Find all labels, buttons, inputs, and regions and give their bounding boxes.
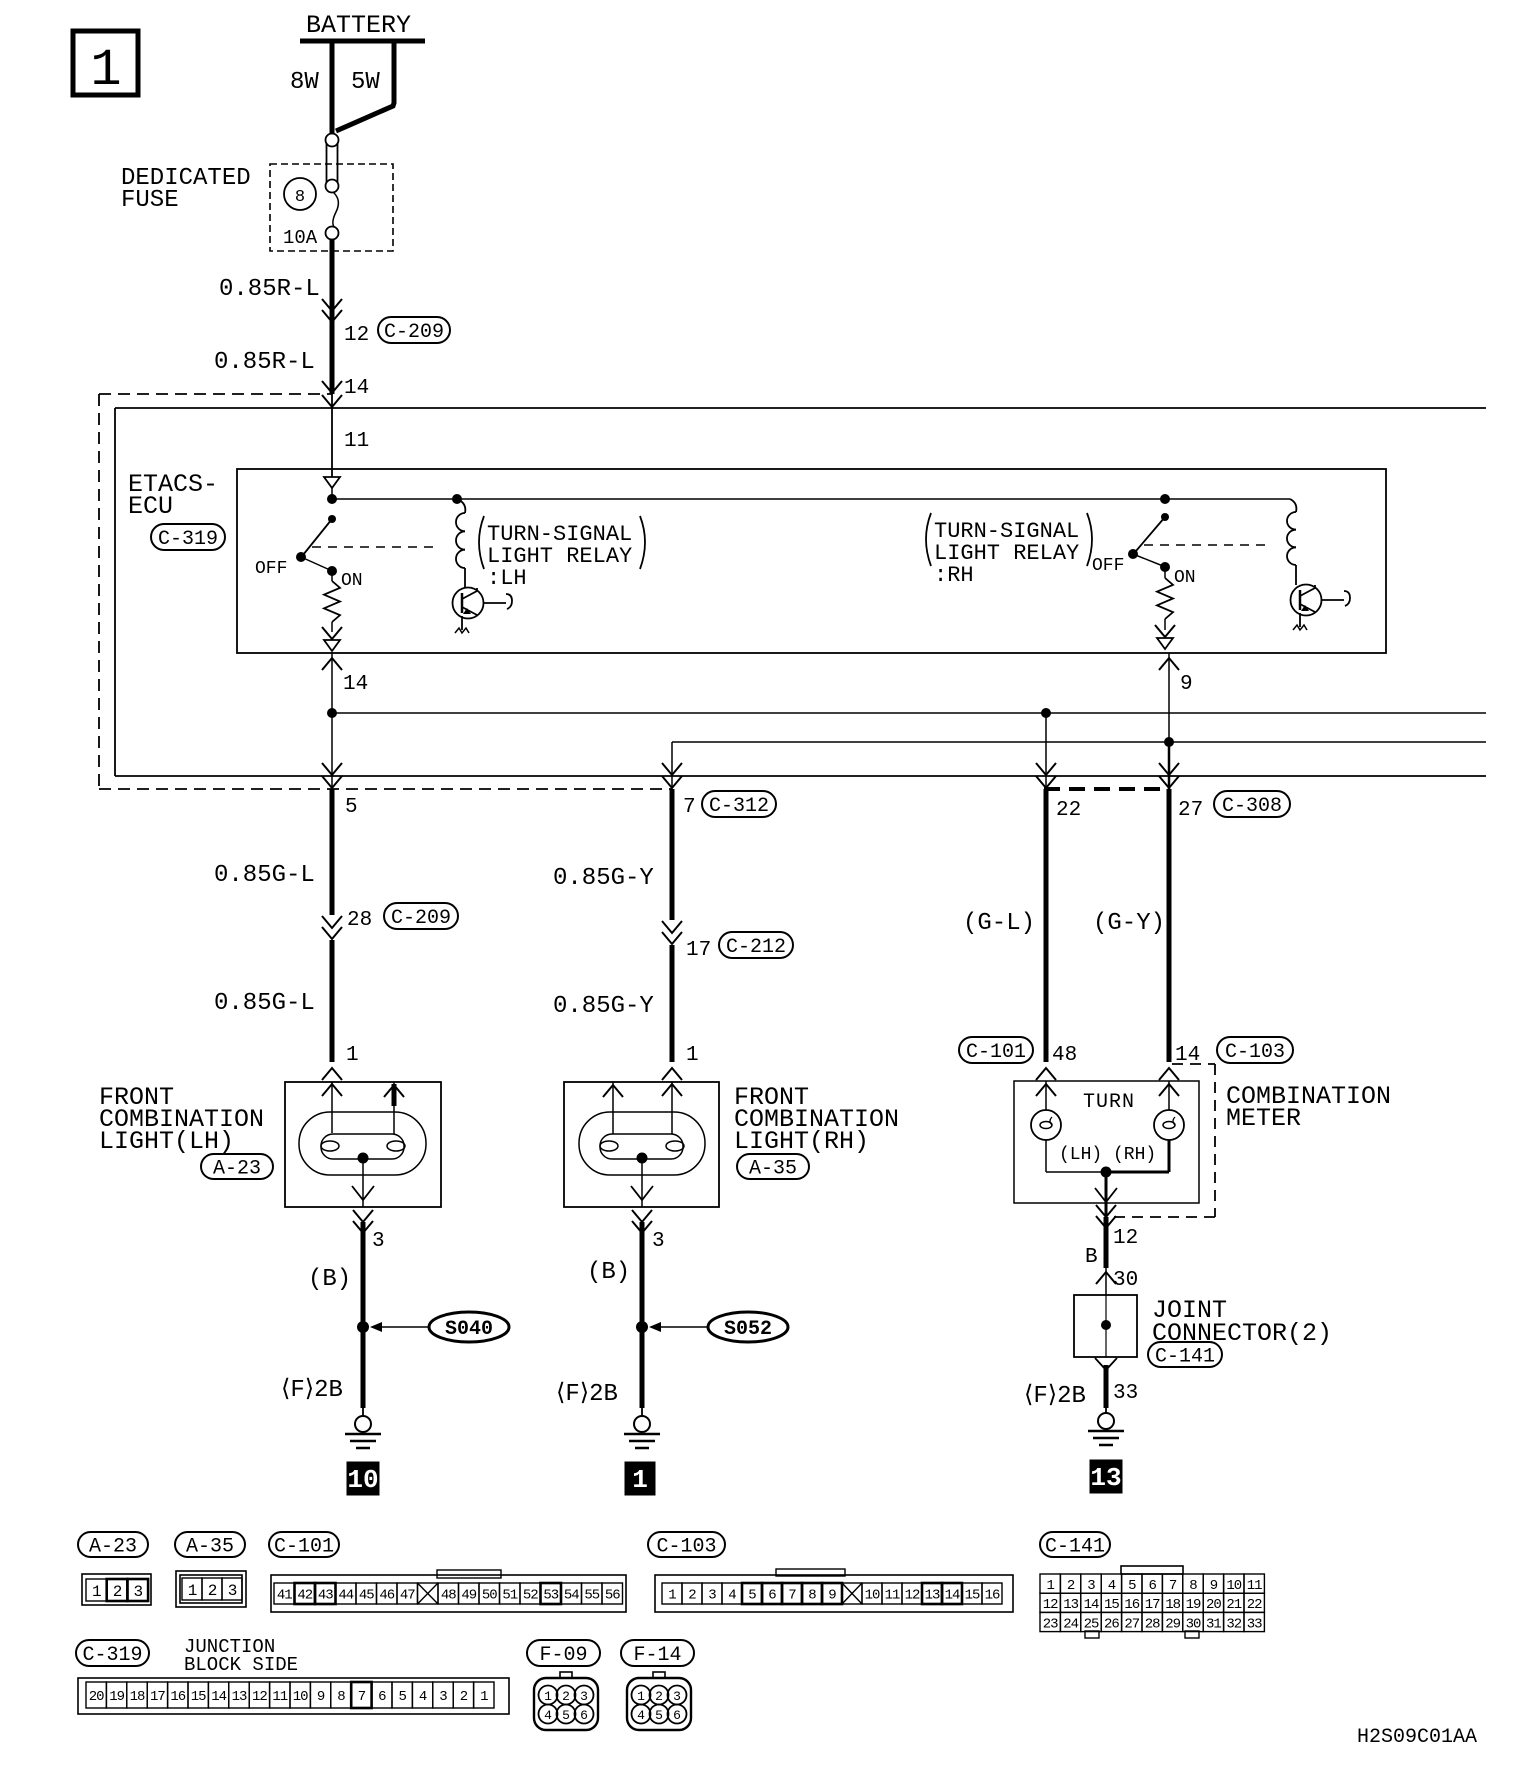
bus line LH output [327,708,1486,718]
svg-text:3: 3 [652,1230,665,1253]
svg-text:2: 2 [562,1689,570,1704]
svg-text:20: 20 [89,1689,104,1705]
svg-text:7: 7 [788,1588,796,1604]
wire 0.85G-Y C-319/7 to C-212/17 [662,789,682,944]
svg-text:11: 11 [885,1588,900,1604]
svg-text:OFF: OFF [255,559,287,579]
svg-text:14: 14 [1084,1597,1099,1613]
svg-text:56: 56 [605,1588,620,1604]
svg-text:F-09: F-09 [539,1644,587,1667]
connector C-103 oval [1217,1037,1293,1063]
ground G RH [624,1408,660,1448]
svg-text:LIGHT(RH): LIGHT(RH) [734,1127,869,1156]
svg-text:44: 44 [338,1588,353,1604]
svg-text:(B): (B) [308,1266,351,1293]
connector C-101 pinout [271,1570,626,1612]
svg-text:OFF: OFF [1092,556,1124,576]
dedicated fuse box [121,164,393,251]
svg-text:54: 54 [564,1588,579,1604]
svg-text:C-209: C-209 [391,907,451,930]
svg-text:0.85R-L: 0.85R-L [219,276,320,303]
svg-text:16: 16 [985,1588,1000,1604]
svg-text:4: 4 [544,1708,552,1723]
connector legend A-35 oval [175,1532,245,1557]
splice S040 [357,1312,509,1342]
svg-text:55: 55 [584,1588,599,1604]
wire 0.85G-L C-319/5 to C-209/28 [322,789,342,939]
svg-text:50: 50 [482,1588,497,1604]
ground G meter [1088,1408,1124,1445]
svg-text:12: 12 [905,1588,920,1604]
svg-text:A-35: A-35 [186,1536,234,1559]
turn indicator bulb RH [1154,1081,1184,1172]
svg-text:16: 16 [170,1689,185,1705]
svg-text:F-14: F-14 [633,1644,681,1667]
svg-text:0.85R-L: 0.85R-L [214,349,315,376]
svg-text:11: 11 [272,1689,287,1705]
svg-text:BLOCK SIDE: BLOCK SIDE [184,1654,298,1676]
junction block side label [184,1636,298,1676]
svg-text:19: 19 [109,1689,124,1705]
svg-text:9: 9 [317,1689,325,1705]
wire (B) LH light to ground [361,1222,366,1408]
svg-text:C-308: C-308 [1222,795,1282,818]
svg-text:2: 2 [1067,1578,1075,1594]
svg-text:⟨F⟩2B: ⟨F⟩2B [1024,1383,1086,1410]
wire 0.85G-Y C-212/17 to light pin 1 [670,945,675,1062]
RH relay resistor [1157,567,1173,630]
svg-text:28: 28 [1145,1616,1160,1632]
wire F 2B to ground 13 [1104,1365,1109,1408]
svg-text:9: 9 [1180,673,1193,696]
svg-text:14: 14 [211,1689,226,1705]
svg-text:48: 48 [1052,1044,1077,1067]
svg-text:6: 6 [1148,1578,1156,1594]
svg-text:BATTERY: BATTERY [306,11,411,40]
turn-signal light relay LH label [479,516,645,591]
svg-text:(G-L): (G-L) [963,910,1035,937]
connector F-14 oval [621,1640,694,1666]
svg-text:TURN: TURN [1083,1091,1135,1114]
svg-text:41: 41 [277,1588,292,1604]
svg-text:1: 1 [92,1583,101,1601]
svg-text:⟨F⟩2B: ⟨F⟩2B [556,1381,618,1408]
svg-text:13: 13 [232,1689,247,1705]
svg-text:14: 14 [343,673,368,696]
svg-text:3: 3 [372,1230,385,1253]
svg-text:3: 3 [439,1689,447,1705]
svg-text:33: 33 [1113,1382,1138,1405]
wire pin 22 drop [1036,713,1056,789]
RH relay coil drive dashed link [1144,544,1272,546]
svg-text:29: 29 [1165,1616,1180,1632]
svg-text:2: 2 [113,1583,122,1601]
svg-text:FUSE: FUSE [121,187,179,214]
wire pin 27 drop [1159,742,1179,789]
svg-text:11: 11 [1247,1578,1262,1594]
svg-text:31: 31 [1206,1616,1221,1632]
svg-text:8: 8 [337,1689,345,1705]
svg-text:C-312: C-312 [709,795,769,818]
ETACS-ECU label [128,470,218,521]
svg-text:0.85G-L: 0.85G-L [214,990,315,1017]
LH relay input triangle [324,477,340,499]
svg-text:S040: S040 [445,1318,493,1341]
connector C-141 oval [1148,1342,1222,1367]
svg-text:(G-Y): (G-Y) [1093,910,1165,937]
svg-text:C-319: C-319 [82,1644,142,1667]
svg-text:14: 14 [1175,1044,1200,1067]
svg-text:2: 2 [460,1689,468,1705]
svg-text:6: 6 [378,1689,386,1705]
LH relay coil [456,499,465,588]
RH light ground pin 3 [631,1158,665,1253]
svg-text:49: 49 [461,1588,476,1604]
ground number 10 [347,1462,379,1495]
svg-text:24: 24 [1063,1616,1078,1632]
LH relay coil drive dashed link [312,546,438,548]
combination meter dashed outline [1044,789,1215,1217]
svg-text:11: 11 [344,430,369,453]
svg-text:8: 8 [1189,1578,1197,1594]
meter ground pin 12 [1095,1172,1138,1250]
svg-text:52: 52 [523,1588,538,1604]
svg-text:7: 7 [358,1689,366,1705]
svg-text:13: 13 [1063,1597,1078,1613]
connector legend C-103 oval [648,1532,725,1557]
connector C-103 pinout [655,1569,1013,1612]
ground G LH [345,1408,381,1448]
LH light bulb [299,1082,426,1175]
svg-text:B: B [1085,1246,1098,1269]
bus line RH output [672,737,1486,747]
front combination light RH label [734,1083,899,1156]
svg-text:33: 33 [1247,1616,1262,1632]
wire pin 7 drop [662,742,682,789]
connector C-308 oval [1214,791,1290,817]
svg-text:22: 22 [1247,1597,1262,1613]
svg-text:47: 47 [400,1588,415,1604]
svg-text:(B): (B) [587,1259,630,1286]
svg-text:10: 10 [347,1465,378,1495]
svg-text:12: 12 [1043,1597,1058,1613]
svg-text:48: 48 [441,1588,456,1604]
svg-text:18: 18 [1165,1597,1180,1613]
svg-text:1: 1 [346,1044,359,1067]
front combination light RH box [564,1082,719,1207]
connector A-35 pinout [176,1571,246,1607]
svg-text:ON: ON [341,571,363,591]
svg-text:32: 32 [1226,1616,1241,1632]
svg-text:21: 21 [1226,1597,1241,1613]
battery [290,11,425,133]
svg-text:C-103: C-103 [1225,1041,1285,1064]
svg-text:4: 4 [419,1689,427,1705]
svg-text::LH: :LH [487,566,527,591]
svg-text:1: 1 [188,1582,197,1600]
svg-text:1: 1 [480,1689,488,1705]
turn-signal light relay RH label [926,513,1092,588]
svg-text:1: 1 [632,1465,648,1495]
svg-text:6: 6 [580,1708,588,1723]
svg-text:18: 18 [130,1689,145,1705]
svg-text:C-101: C-101 [274,1536,334,1559]
svg-text:8: 8 [808,1588,816,1604]
svg-text:3: 3 [580,1689,588,1704]
svg-text::RH: :RH [934,563,974,588]
LH relay output to pin 14 [322,627,342,651]
wire pin 5 drop [322,713,342,789]
svg-text:10: 10 [293,1689,308,1705]
svg-text:4: 4 [1108,1578,1116,1594]
wire battery fuse to C-209 pin 12 (0.85R-L) [322,239,342,394]
svg-text:42: 42 [297,1588,312,1604]
RH light bulb [579,1082,705,1175]
connector A-35 oval [737,1154,809,1179]
front combination light LH box [285,1082,441,1207]
svg-text:12: 12 [1113,1227,1138,1250]
wire (G-Y) to meter 14 [1159,789,1179,1096]
svg-text:C-101: C-101 [966,1041,1026,1064]
wire into ETACS pin 11 [322,381,342,477]
connector C-101 oval [959,1037,1033,1063]
wire (B) RH light to ground [640,1222,645,1408]
svg-text:13: 13 [925,1588,940,1604]
svg-text:LIGHT(LH): LIGHT(LH) [99,1127,234,1156]
svg-text:27: 27 [1178,799,1203,822]
svg-text:9: 9 [828,1588,836,1604]
connector F-14 pinout [627,1672,691,1730]
svg-text:3: 3 [673,1689,681,1704]
svg-text:17: 17 [150,1689,165,1705]
front combination light LH label [99,1083,264,1156]
relay inner box [237,469,1386,653]
svg-text:1: 1 [1046,1578,1054,1594]
svg-text:C-141: C-141 [1045,1536,1105,1559]
RH relay coil [1287,499,1296,585]
svg-text:19: 19 [1186,1597,1201,1613]
wire relay RH pin 9 to bus [1159,653,1193,742]
svg-text:5: 5 [345,796,358,819]
svg-text:15: 15 [1104,1597,1119,1613]
svg-text:4: 4 [637,1708,645,1723]
svg-text:15: 15 [965,1588,980,1604]
connector A-23 pinout [82,1574,151,1605]
connector C-319 oval [76,1640,149,1666]
splice S052 [636,1312,788,1342]
svg-text:6: 6 [673,1708,681,1723]
svg-text:16: 16 [1124,1597,1139,1613]
meter internal ground rail [1046,1167,1169,1178]
internal supply rail node [327,494,1290,504]
svg-text:H2S09C01AA: H2S09C01AA [1357,1726,1477,1749]
LH relay resistor [324,571,340,632]
svg-text:14: 14 [945,1588,960,1604]
svg-text:30: 30 [1186,1616,1201,1632]
svg-text:ECU: ECU [128,492,173,521]
svg-text:46: 46 [379,1588,394,1604]
svg-text:METER: METER [1226,1104,1301,1133]
svg-text:45: 45 [359,1588,374,1604]
svg-text:C-212: C-212 [726,936,786,959]
svg-text:5: 5 [748,1588,756,1604]
connector F-09 oval [527,1640,600,1666]
connector C-209 [378,317,450,343]
connector C-141 pinout [1040,1566,1264,1638]
svg-text:S052: S052 [724,1318,772,1341]
svg-text:10A: 10A [283,227,318,249]
fuse element F8 10A [326,134,339,240]
turn-signal relay LH switch [255,515,363,591]
ETACS junction block dashed border [99,394,672,789]
connector C-312 oval [702,791,776,817]
wire 0.85G-L C-209/28 to light pin 1 [330,940,335,1062]
ground number 1 [625,1462,655,1495]
svg-text:22: 22 [1056,799,1081,822]
svg-text:27: 27 [1124,1616,1139,1632]
svg-text:7: 7 [1169,1578,1177,1594]
connector C-212 oval [719,932,793,958]
svg-text:2: 2 [655,1689,663,1704]
ETACS-ECU outer solid box [115,408,1486,776]
svg-text:2: 2 [208,1582,217,1600]
svg-text:1: 1 [668,1588,676,1604]
svg-text:2: 2 [688,1588,696,1604]
wire B meter to joint connector [1085,1217,1138,1295]
svg-text:C-141: C-141 [1155,1346,1215,1369]
svg-text:6: 6 [768,1588,776,1604]
wire relay LH pin 14 to bus [322,653,368,713]
svg-text:53: 53 [543,1588,558,1604]
connector legend A-23 oval [78,1532,148,1557]
svg-text:3: 3 [228,1582,237,1600]
svg-text:⟨F⟩2B: ⟨F⟩2B [281,1377,343,1404]
svg-text:0.85G-Y: 0.85G-Y [553,993,654,1020]
svg-text:A-23: A-23 [89,1536,137,1559]
connector C-319 oval [151,524,225,550]
connector A-23 oval [201,1154,273,1179]
svg-text:1: 1 [637,1689,645,1704]
svg-text:5: 5 [398,1689,406,1705]
svg-text:3: 3 [1087,1578,1095,1594]
svg-text:28: 28 [347,909,372,932]
turn-signal relay RH switch [1092,513,1196,588]
ground number 13 [1090,1460,1122,1493]
svg-text:C-319: C-319 [158,528,218,551]
svg-text:43: 43 [318,1588,333,1604]
svg-text:12: 12 [344,324,369,347]
svg-text:5: 5 [1128,1578,1136,1594]
svg-text:8W: 8W [290,69,319,96]
connector legend C-101 oval [269,1532,339,1557]
svg-text:13: 13 [1090,1463,1121,1493]
svg-text:30: 30 [1113,1269,1138,1292]
svg-text:ON: ON [1174,568,1196,588]
svg-text:17: 17 [1145,1597,1160,1613]
svg-text:3: 3 [133,1583,142,1601]
joint connector output pin 33 [1095,1358,1138,1405]
RH relay output to pin 9 [1155,625,1175,649]
svg-text:A-35: A-35 [749,1158,797,1181]
svg-text:17: 17 [686,939,711,962]
svg-text:CONNECTOR(2): CONNECTOR(2) [1152,1319,1332,1348]
svg-text:23: 23 [1043,1616,1058,1632]
svg-text:4: 4 [728,1588,736,1604]
svg-text:20: 20 [1206,1597,1221,1613]
svg-text:15: 15 [191,1689,206,1705]
svg-text:26: 26 [1104,1616,1119,1632]
svg-text:10: 10 [865,1588,880,1604]
turn indicator bulb LH [1031,1081,1061,1172]
combination meter label [1226,1082,1391,1133]
wire (G-L) to meter 48 [1036,789,1056,1096]
svg-text:C-209: C-209 [384,321,444,344]
svg-text:0.85G-L: 0.85G-L [214,862,315,889]
svg-text:1: 1 [686,1044,699,1067]
svg-text:C-103: C-103 [656,1536,716,1559]
svg-text:0.85G-Y: 0.85G-Y [553,865,654,892]
svg-text:51: 51 [502,1588,517,1604]
connector legend C-141 oval [1040,1532,1110,1557]
svg-text:(LH) (RH): (LH) (RH) [1059,1145,1156,1165]
page number box 1 [73,31,138,100]
svg-text:A-23: A-23 [213,1158,261,1181]
svg-text:7: 7 [683,796,696,819]
svg-text:3: 3 [708,1588,716,1604]
connector C-209 lower oval [384,903,458,929]
svg-text:8: 8 [295,188,305,207]
svg-text:5: 5 [655,1708,663,1723]
svg-text:25: 25 [1084,1616,1099,1632]
svg-text:5W: 5W [351,69,380,96]
svg-text:14: 14 [344,377,369,400]
RH relay transistor [1291,585,1351,631]
joint connector (2) box [1074,1295,1137,1357]
LH relay transistor [453,588,513,634]
connector C-319 pinout [78,1678,509,1714]
svg-text:1: 1 [544,1689,552,1704]
joint connector label [1152,1296,1332,1348]
connector F-09 pinout [534,1672,598,1730]
combination meter box [1014,1081,1199,1203]
svg-text:5: 5 [562,1708,570,1723]
LH light ground pin 3 [352,1158,385,1253]
svg-text:10: 10 [1226,1578,1241,1594]
svg-text:9: 9 [1210,1578,1218,1594]
svg-text:12: 12 [252,1689,267,1705]
svg-text:1: 1 [90,41,121,100]
